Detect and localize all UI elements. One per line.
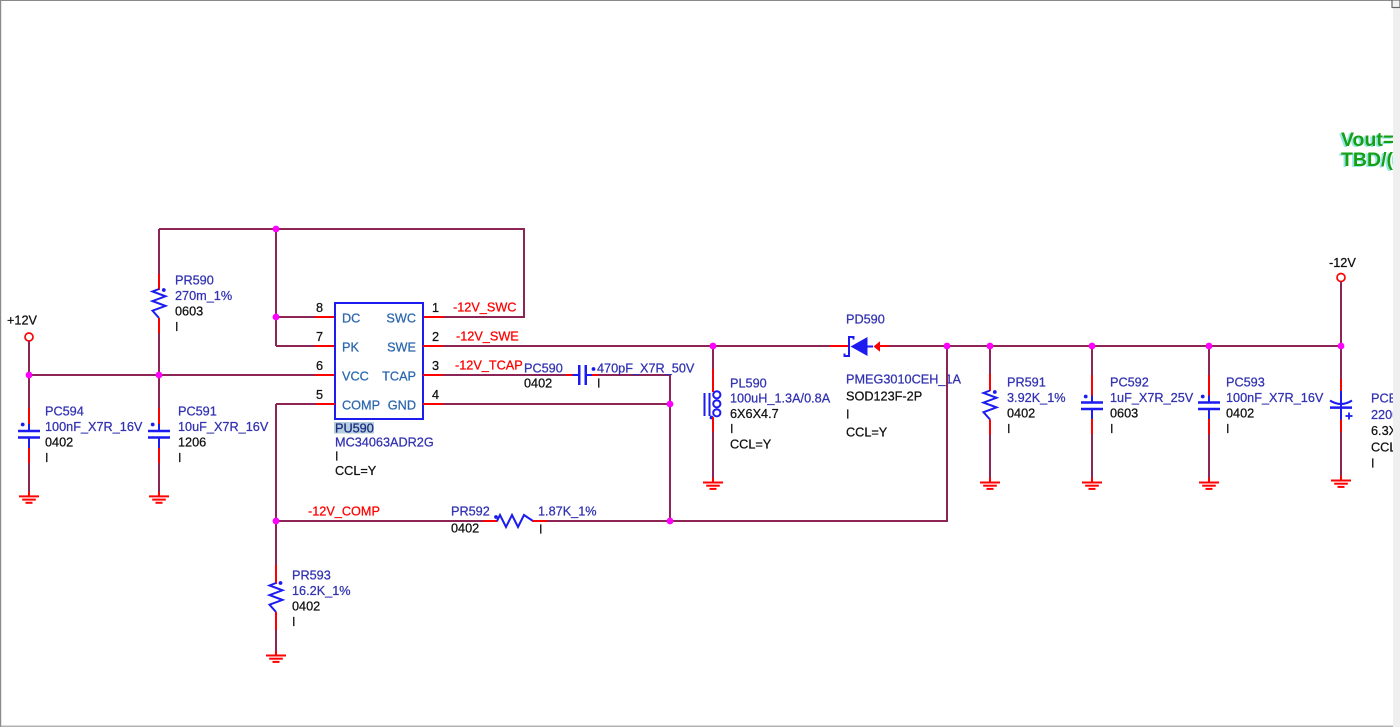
ground for PC593 bbox=[1208, 478, 1210, 483]
junction top wire / pin8 column bbox=[273, 226, 280, 233]
svg-text:5: 5 bbox=[316, 388, 323, 402]
ground for PC592 bbox=[1091, 478, 1093, 483]
junction rail / PC593 bbox=[1206, 343, 1213, 350]
svg-text:PC591: PC591 bbox=[178, 405, 217, 419]
svg-text:PMEG3010CEH_1A: PMEG3010CEH_1A bbox=[846, 373, 961, 387]
svg-text:PC594: PC594 bbox=[45, 405, 84, 419]
wire -12V_COMP right segment to feedback corner bbox=[547, 520, 948, 522]
ground for PR593 bbox=[275, 651, 277, 656]
svg-text:PR592: PR592 bbox=[451, 505, 490, 519]
svg-text:+12V: +12V bbox=[7, 314, 38, 328]
capacitor PCE590 upper lead bbox=[1340, 346, 1342, 380]
svg-text:I: I bbox=[45, 451, 49, 465]
ground for PL590 bbox=[712, 478, 714, 483]
capacitor PC594 lower lead bbox=[28, 448, 30, 464]
svg-text:PR593: PR593 bbox=[292, 569, 331, 583]
svg-text:270m_1%: 270m_1% bbox=[175, 289, 232, 303]
junction COMP-TCAP node bbox=[667, 518, 674, 525]
svg-text:VCC: VCC bbox=[342, 370, 369, 384]
svg-text:8: 8 bbox=[316, 301, 323, 315]
svg-text:SOD123F-2P: SOD123F-2P bbox=[846, 390, 922, 404]
svg-text:MC34063ADR2G: MC34063ADR2G bbox=[335, 436, 434, 450]
wire pin1 SWC horizontal bbox=[443, 316, 525, 318]
svg-text:1206: 1206 bbox=[178, 436, 206, 450]
svg-text:-12V_SWC: -12V_SWC bbox=[453, 301, 516, 315]
inductor PL590 lower lead bbox=[712, 417, 714, 433]
svg-text:7: 7 bbox=[316, 330, 323, 344]
ground for PR591 bbox=[989, 478, 991, 483]
capacitor PCE590 electrolytic bbox=[1340, 391, 1342, 408]
svg-text:CCL=Y: CCL=Y bbox=[846, 426, 888, 440]
svg-text:1.87K_1%: 1.87K_1% bbox=[538, 505, 597, 519]
svg-text:-12V_SWE: -12V_SWE bbox=[456, 330, 519, 344]
pin 6 stub bbox=[315, 374, 335, 376]
svg-text:SWE: SWE bbox=[387, 341, 416, 355]
resistor PR590 lower lead bbox=[158, 318, 160, 334]
svg-text:I: I bbox=[178, 451, 182, 465]
svg-text:0402: 0402 bbox=[451, 522, 479, 536]
wire pin5 COMP horizontal bbox=[276, 403, 316, 405]
svg-text:DC: DC bbox=[342, 312, 360, 326]
svg-text:-12V_COMP: -12V_COMP bbox=[308, 505, 380, 519]
svg-text:PL590: PL590 bbox=[730, 377, 767, 391]
svg-text:TBD/(0: TBD/(0 bbox=[1341, 149, 1400, 171]
svg-text:2: 2 bbox=[432, 330, 439, 344]
resistor PR593 upper lead bbox=[275, 521, 277, 566]
inductor PL590 bbox=[704, 393, 706, 416]
resistor PR593 lower lead bbox=[275, 612, 277, 631]
svg-text:100nF_X7R_16V: 100nF_X7R_16V bbox=[45, 420, 143, 434]
svg-text:Vout=-: Vout=- bbox=[1341, 129, 1400, 151]
pin 2 stub bbox=[423, 345, 444, 347]
svg-text:COMP: COMP bbox=[342, 399, 380, 413]
wire -12V_COMP left segment bbox=[275, 520, 484, 522]
svg-text:PC590: PC590 bbox=[524, 362, 563, 376]
wire pin8 horizontal bbox=[276, 316, 316, 318]
capacitor PC593 lower lead bbox=[1208, 419, 1210, 435]
svg-text:100nF_X7R_16V: 100nF_X7R_16V bbox=[1226, 391, 1324, 405]
pin 7 stub bbox=[315, 345, 335, 347]
svg-text:4: 4 bbox=[432, 388, 439, 402]
wire pin7 horizontal bbox=[276, 345, 316, 347]
junction pin8 / pin7 column bbox=[273, 314, 280, 321]
svg-text:6: 6 bbox=[316, 359, 323, 373]
pin 8 stub bbox=[315, 316, 335, 318]
wire output rail right of diode bbox=[889, 345, 1342, 347]
svg-text:0402: 0402 bbox=[45, 436, 73, 450]
svg-text:I: I bbox=[539, 523, 543, 537]
wire VCC bus bbox=[28, 374, 316, 376]
svg-text:I: I bbox=[1371, 457, 1375, 471]
window border bottom bbox=[0, 725, 1400, 727]
svg-text:PC592: PC592 bbox=[1110, 376, 1149, 390]
label PU590 highlight bbox=[334, 422, 374, 434]
resistor PR590 upper lead bbox=[158, 229, 160, 275]
wire feedback vertical bbox=[946, 346, 948, 522]
wire -12V drop bbox=[1340, 282, 1342, 348]
svg-text:100uH_1.3A/0.8A: 100uH_1.3A/0.8A bbox=[730, 392, 831, 406]
ground for PCE590 bbox=[1340, 476, 1342, 481]
svg-text:I: I bbox=[730, 422, 734, 436]
svg-text:PD590: PD590 bbox=[846, 313, 885, 327]
svg-text:PR591: PR591 bbox=[1007, 376, 1046, 390]
wire PC590 to corner bbox=[598, 374, 670, 376]
svg-text:10uF_X7R_16V: 10uF_X7R_16V bbox=[178, 420, 269, 434]
scrollbar corner box bbox=[1392, 0, 1400, 8]
capacitor PC590 right stub bbox=[592, 374, 599, 376]
capacitor PC593 bbox=[1208, 396, 1210, 403]
diode PD590 cathode-side stub bbox=[880, 345, 890, 347]
capacitor PC594 upper lead bbox=[28, 375, 30, 409]
resistor PR590 bbox=[153, 289, 166, 318]
resistor PR592 bbox=[497, 515, 533, 527]
svg-text:0603: 0603 bbox=[175, 305, 203, 319]
svg-text:-12V: -12V bbox=[1329, 256, 1356, 270]
svg-text:1: 1 bbox=[432, 301, 439, 315]
capacitor PC592 upper lead bbox=[1091, 346, 1093, 376]
svg-text:I: I bbox=[1110, 422, 1114, 436]
wire pin1 SWC vertical bbox=[523, 228, 525, 317]
capacitor PC591 bbox=[158, 424, 160, 431]
svg-text:I: I bbox=[335, 450, 339, 464]
resistor PR591 upper lead bbox=[989, 346, 991, 375]
svg-text:I: I bbox=[597, 377, 601, 391]
resistor PR591 lower lead bbox=[989, 420, 991, 436]
diode PD590 bbox=[845, 337, 854, 356]
pin 5 stub bbox=[315, 403, 335, 405]
capacitor PC590 left stub bbox=[566, 374, 573, 376]
resistor PR592 left stub bbox=[483, 520, 498, 522]
wire pin3 TCAP to PC590 bbox=[443, 374, 567, 376]
svg-text:0402: 0402 bbox=[292, 600, 320, 614]
wire +12V drop bbox=[28, 341, 30, 376]
junction rail / PR591 bbox=[987, 343, 994, 350]
resistor PR593 bbox=[270, 583, 283, 612]
capacitor PC592 bbox=[1091, 396, 1093, 403]
svg-text:-12V_TCAP: -12V_TCAP bbox=[455, 359, 523, 373]
svg-text:3: 3 bbox=[432, 359, 439, 373]
svg-text:SWC: SWC bbox=[386, 312, 416, 326]
wire TCAP corner vertical bbox=[669, 374, 671, 522]
svg-text:I: I bbox=[292, 615, 296, 629]
svg-text:PU590: PU590 bbox=[335, 422, 374, 436]
junction pin4 GND node bbox=[667, 401, 674, 408]
capacitor PCE590 lower lead bbox=[1340, 408, 1342, 421]
svg-text:PR590: PR590 bbox=[175, 274, 214, 288]
pin 3 stub bbox=[423, 374, 444, 376]
junction rail / PC592 bbox=[1089, 343, 1096, 350]
capacitor PC594 bbox=[28, 424, 30, 431]
svg-text:0402: 0402 bbox=[1007, 407, 1035, 421]
wire top loop (SWC to PR590) bbox=[159, 228, 524, 230]
svg-text:3.92K_1%: 3.92K_1% bbox=[1007, 391, 1066, 405]
svg-text:16.2K_1%: 16.2K_1% bbox=[292, 584, 351, 598]
resistor PR591 bbox=[984, 391, 997, 420]
capacitor PC591 lower lead bbox=[158, 448, 160, 464]
window border left bbox=[0, 0, 2, 727]
svg-text:I: I bbox=[175, 320, 179, 334]
svg-text:0402: 0402 bbox=[524, 377, 552, 391]
wire pin4 GND horizontal bbox=[443, 403, 671, 405]
resistor PR592 right stub bbox=[533, 520, 549, 522]
capacitor PC592 lower lead bbox=[1091, 419, 1093, 435]
wire output rail left of diode bbox=[443, 345, 831, 347]
pin 4 stub bbox=[423, 403, 444, 405]
svg-text:0603: 0603 bbox=[1110, 407, 1138, 421]
inductor PL590 upper lead bbox=[712, 346, 714, 370]
svg-text:CCL=Y: CCL=Y bbox=[730, 437, 772, 451]
svg-text:6X6X4.7: 6X6X4.7 bbox=[730, 407, 779, 421]
scrollbar track bbox=[1393, 7, 1400, 727]
wire pin8 vertical from top wire bbox=[275, 229, 277, 346]
ground for PC591 bbox=[158, 491, 160, 496]
svg-text:470pF_X7R_50V: 470pF_X7R_50V bbox=[597, 362, 695, 376]
capacitor PC591 upper lead bbox=[158, 375, 160, 409]
junction rail / feedback bbox=[944, 343, 951, 350]
svg-text:I: I bbox=[846, 408, 850, 422]
svg-text:I: I bbox=[1226, 422, 1230, 436]
ground for PC594 bbox=[28, 491, 30, 496]
junction bus / PR590 / PC591 bbox=[156, 372, 163, 379]
junction +12V / bus / PC594 bbox=[26, 372, 33, 379]
svg-text:CCL=Y: CCL=Y bbox=[335, 464, 377, 478]
svg-text:I: I bbox=[1007, 422, 1011, 436]
svg-text:PC593: PC593 bbox=[1226, 376, 1265, 390]
junction COMP node bbox=[273, 518, 280, 525]
svg-text:TCAP: TCAP bbox=[382, 370, 416, 384]
svg-text:PK: PK bbox=[342, 341, 359, 355]
svg-text:0402: 0402 bbox=[1226, 407, 1254, 421]
diode PD590 anode-side stub bbox=[830, 345, 848, 347]
svg-text:1uF_X7R_25V: 1uF_X7R_25V bbox=[1110, 391, 1194, 405]
capacitor PC593 upper lead bbox=[1208, 346, 1210, 376]
svg-text:GND: GND bbox=[388, 399, 416, 413]
junction rail / -12V / PCE590 bbox=[1338, 343, 1345, 350]
pin 1 stub bbox=[423, 316, 444, 318]
capacitor PC590 plates bbox=[573, 374, 580, 376]
op-amp U1 body: IC PU590 MC34063 bbox=[335, 303, 423, 419]
junction rail / PL590 bbox=[710, 343, 717, 350]
window border top bbox=[0, 0, 1392, 2]
wire pin5 COMP vertical bbox=[275, 404, 277, 522]
